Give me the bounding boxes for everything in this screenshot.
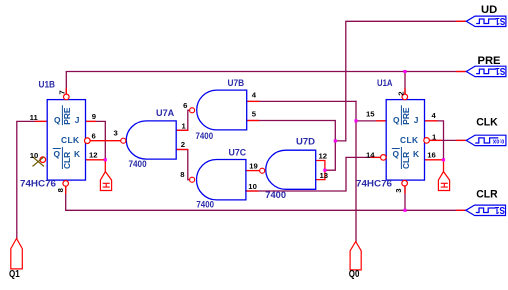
pin red segment U1B pin9: [86, 120, 96, 122]
wire U7A pin1 to U7B output: [176, 110, 189, 130]
junction dot U1A J-K tie at pin16: [442, 158, 445, 161]
svg-text:3: 3: [114, 129, 118, 138]
svg-text:J: J: [75, 115, 80, 125]
svg-text:1: 1: [182, 121, 187, 130]
svg-text:6: 6: [92, 132, 96, 141]
svg-text:10: 10: [248, 182, 257, 191]
wire U1A pin15 stub to Q0 net junction: [356, 120, 386, 122]
svg-text:7400: 7400: [196, 131, 214, 141]
svg-text:PRE: PRE: [62, 107, 72, 125]
input symbol CLR (switch S1): [466, 205, 506, 215]
svg-text:Q: Q: [393, 115, 400, 125]
junction dot U1B J-K tie at pin12: [104, 158, 107, 161]
wire U1B pin9/pin12 J-K tie vertical: [86, 121, 106, 159]
svg-text:1: 1: [432, 132, 437, 141]
input symbol PRE (switch S1): [466, 66, 506, 76]
pin red segment at CLK symbol tip: [457, 139, 467, 141]
svg-text:CLK: CLK: [61, 135, 79, 145]
svg-text:Q: Q: [393, 149, 400, 159]
svg-text:4: 4: [432, 111, 437, 120]
svg-text:PRE: PRE: [478, 55, 501, 67]
bubble U1A pin1 CLK: [424, 138, 430, 144]
pin red segment U1A pin4: [425, 120, 438, 122]
svg-text:U1B: U1B: [39, 79, 56, 89]
bubble U1B pin7 PRE: [64, 94, 70, 100]
svg-text:7: 7: [58, 90, 67, 94]
svg-text:CLR: CLR: [476, 189, 497, 201]
wire PRE net horizontal (U1B pin7 up and across to PRE symbol): [66, 72, 466, 95]
pin red stem to right HI flag: [443, 160, 445, 172]
wire U1A pin4 J stub and tie vertical to pin16: [425, 121, 444, 160]
svg-text:13: 13: [320, 171, 329, 180]
pin red stem to left HI flag: [104, 160, 106, 172]
svg-text:74HC76: 74HC76: [20, 178, 56, 188]
svg-text:12: 12: [89, 150, 98, 159]
junction dot CLR net at U1A pin3 branch: [403, 209, 406, 212]
output tag Q0: [350, 242, 361, 270]
svg-text:UD: UD: [481, 4, 497, 16]
svg-text:8: 8: [180, 170, 185, 179]
svg-text:3: 3: [394, 189, 403, 193]
svg-text:7400: 7400: [196, 200, 214, 210]
svg-text:K: K: [74, 149, 80, 159]
pin red segment U7A pin1: [176, 129, 188, 131]
pin red segment U7B pin5: [247, 120, 259, 122]
wire Q1 net (U1B pin11 to Q1 tag): [17, 121, 47, 238]
svg-text:2: 2: [396, 92, 405, 96]
bubble U7B output pin6: [190, 108, 195, 113]
pin red segment U1A pin2 below PRE branch: [404, 89, 406, 95]
svg-text:CLK: CLK: [476, 116, 498, 128]
svg-text:U7C: U7C: [229, 147, 247, 157]
svg-text:7400: 7400: [265, 190, 286, 200]
bubble U1B pin10 notQ: [40, 157, 46, 163]
svg-text:4: 4: [252, 91, 257, 100]
flip-flop U1A body: [386, 100, 424, 181]
pin red segment U1B pin12 K (red to junction): [86, 159, 106, 161]
svg-text:U7B: U7B: [228, 78, 245, 88]
wire UD net (UD symbol to U7B.5/U7D.12-13 junction): [335, 21, 466, 141]
svg-text:11: 11: [30, 113, 39, 122]
pin red segments U7D pins12/13 tie: [316, 161, 325, 180]
pin red segment U7C pin9 to U7D output: [246, 170, 260, 172]
pin red segment U1B pin6 to U7A output bubble: [91, 140, 121, 142]
svg-text:U1A: U1A: [377, 78, 393, 88]
pin red segment U1A pin3 above CLR branch: [404, 186, 406, 193]
junction dot UD net at U7B.5/U7D wire: [334, 139, 337, 142]
input symbol CLK (clock source): [466, 135, 506, 145]
svg-text:U7D: U7D: [296, 137, 315, 147]
junction dot Q0 net at U1A pin15: [354, 119, 357, 122]
pin red segment at PRE symbol tip: [457, 71, 467, 73]
bubble U1B pin6 CLK: [85, 138, 91, 144]
svg-text:Q1: Q1: [9, 268, 20, 280]
bubble U7D output pin11: [260, 168, 265, 173]
svg-text:CLR: CLR: [62, 152, 72, 169]
output tag Q1: [11, 239, 22, 269]
svg-text:0:0X: 0:0X: [492, 138, 504, 144]
HI flag at U1B J-K (logic high): [100, 172, 111, 191]
svg-text:12: 12: [319, 152, 328, 161]
pin red segment U7C pin10: [246, 190, 258, 192]
wire CLR net (U1B pin8 down, across to CLR symbol): [66, 186, 466, 210]
pin red segment at UD symbol tip: [457, 20, 467, 22]
svg-text:2: 2: [181, 140, 185, 149]
svg-text:8: 8: [56, 187, 65, 192]
bubble U7A output pin3: [121, 138, 126, 143]
wire U1A pin14 to U7C pin10: [246, 157, 381, 191]
wire U7A pin2 to U7C output: [176, 150, 189, 180]
svg-text:Q: Q: [54, 115, 61, 125]
svg-text:CLR: CLR: [401, 152, 411, 169]
wire PRE branch to U1A pin2: [404, 72, 406, 95]
NAND gate U7B body (mirrored, output left): [197, 90, 247, 130]
pin red segment at CLR symbol tip: [457, 209, 466, 211]
svg-text:19: 19: [249, 161, 258, 170]
svg-text:S1: S1: [495, 15, 505, 27]
no-connect X on U1B pin10: [33, 157, 44, 166]
svg-text:14: 14: [366, 150, 375, 159]
pin red segment U7B pin4: [247, 100, 259, 102]
svg-text:K: K: [413, 149, 419, 159]
junction dot U7D pins 12-13 tie: [323, 169, 326, 172]
NAND gate U7A body (mirrored, output left): [126, 121, 176, 159]
input symbol UD (switch S1): [466, 16, 506, 26]
bubble U1A pin2 PRE: [402, 94, 408, 100]
svg-text:PRE: PRE: [401, 107, 411, 125]
wire CLR branch to U1A pin3: [404, 186, 406, 210]
svg-text:S1: S1: [495, 204, 505, 216]
svg-text:5: 5: [252, 110, 257, 119]
wire CLK net (U1A pin1 to CLK symbol): [429, 139, 466, 141]
bubble U1B pin8 CLR: [63, 181, 69, 187]
svg-text:Q: Q: [54, 149, 61, 159]
NAND gate U7C body (mirrored, output left): [197, 160, 246, 200]
pin red segment U1B pin11: [36, 120, 48, 122]
svg-text:J: J: [414, 115, 419, 125]
svg-text:15: 15: [366, 109, 375, 118]
wire U7B pin5 down to UD junction and on to U7D pins junction: [247, 121, 336, 171]
svg-text:9: 9: [92, 112, 96, 121]
HI flag at U1A J-K (logic high): [438, 172, 449, 191]
bubble U7C output pin8: [190, 177, 195, 182]
pin red segment U1B pin8: [65, 186, 67, 193]
pin red segment U1A pin14: [372, 156, 381, 158]
pin red segment U1A pin15: [377, 120, 387, 122]
svg-text:Q0: Q0: [349, 268, 360, 280]
svg-text:16: 16: [427, 150, 436, 159]
bubble U1A pin14 notQ: [381, 155, 387, 161]
pin red segment U7A pin2: [176, 149, 188, 151]
pin red segment U1A pin1 CLK: [429, 139, 441, 141]
svg-text:74HC76: 74HC76: [356, 178, 392, 188]
svg-text:7400: 7400: [129, 159, 147, 169]
svg-text:6: 6: [183, 101, 187, 110]
NAND gate U7D body (mirrored, output left): [266, 150, 316, 189]
wire Q0 net vertical (U7B.4 corner down past U1A.15 to Q0 tag): [355, 101, 357, 241]
bubble U1A pin3 CLR: [402, 180, 408, 186]
pin red segment U1B pin7 below wire: [65, 89, 67, 95]
wire U7B pin4 to Q0 net corner: [247, 100, 356, 102]
junction dot PRE net at U1A pin2 branch: [403, 70, 406, 73]
pin red segment U1A pin16 K (red to junction): [425, 159, 444, 161]
svg-text:CLK: CLK: [400, 135, 418, 145]
flip-flop U1B body: [47, 100, 85, 181]
svg-text:10: 10: [30, 151, 39, 160]
svg-text:U7A: U7A: [156, 108, 175, 118]
